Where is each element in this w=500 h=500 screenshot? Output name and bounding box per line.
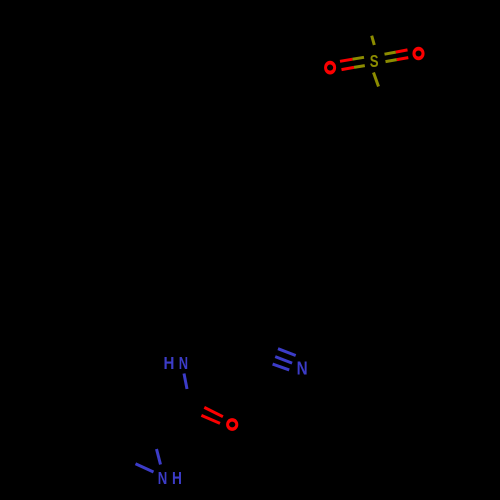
S=O right double bond, line 1 O half	[396, 50, 408, 52]
svg-text:H: H	[164, 353, 175, 373]
nitrile C#N triple bond, top line N half	[278, 349, 296, 356]
S=O right double bond, line 1 S half	[385, 52, 396, 54]
sulfone S1 chain bond (lower, S half)	[374, 73, 379, 87]
S=O left double bond, line 2 S half	[354, 66, 365, 68]
S=O right double bond, line 2 S half	[386, 60, 397, 62]
atom label O right of S1	[412, 47, 424, 61]
svg-text:N: N	[179, 353, 188, 373]
svg-text:N: N	[297, 358, 308, 379]
S=O left double bond, line 1 S half	[353, 57, 365, 59]
pyrrolidine N-C2 bond (N half)	[157, 449, 161, 465]
svg-text:H: H	[172, 468, 182, 488]
atom label O left of S1 (ring drawn as ellipses)	[324, 61, 336, 75]
atom label O carbonyl	[226, 418, 238, 431]
nitrile C#N triple bond, middle line N half	[275, 357, 292, 364]
S=O right double bond, line 2 O half	[397, 58, 409, 60]
carbonyl C=O double bond, line 2 O half	[201, 415, 220, 423]
svg-text:S: S	[370, 51, 379, 71]
amide N-C bond (N half)	[184, 374, 187, 390]
pyrrolidine N-C5 bond (N half)	[136, 464, 154, 472]
S=O left double bond, line 2 O half	[342, 67, 355, 69]
sulfone S1 methyl bond (upper, S half)	[372, 36, 375, 45]
nitrile C#N triple bond, bottom line N half	[273, 364, 290, 370]
carbonyl C=O double bond, line 1 O half	[204, 407, 223, 416]
svg-text:N: N	[158, 468, 168, 488]
S=O left double bond, line 1 O half	[340, 59, 353, 61]
